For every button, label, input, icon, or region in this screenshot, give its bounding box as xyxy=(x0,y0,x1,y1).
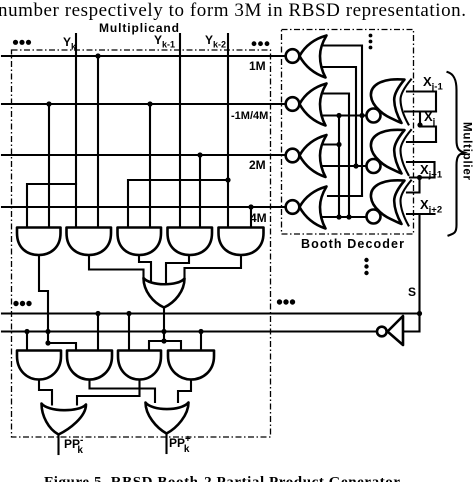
wire: A2 output into OR M1 xyxy=(89,255,144,278)
wire: Yk jog to A1 xyxy=(27,184,76,228)
node: junction rail x362 on XNOR1 output xyxy=(359,113,364,118)
wire: NOR2 top input rail xyxy=(322,94,349,218)
XNOR gate X1 second input arc xyxy=(400,80,411,125)
wire: S vertical from Xj+2 xyxy=(418,214,420,314)
XNOR gate X1 body xyxy=(371,79,405,123)
wire: 1M bus xyxy=(2,55,286,57)
XNOR gate X3 second input arc xyxy=(400,181,411,226)
wire: B4 output into O2 xyxy=(178,380,191,403)
wire: B2 output into O2 xyxy=(90,380,156,403)
wire: Xj-1 input xyxy=(407,92,436,112)
inverter U1 triangle xyxy=(388,316,404,345)
XNOR gate X1 bubble xyxy=(367,109,381,123)
node: junction 4M tap xyxy=(248,204,253,209)
wire: S-bar tap to B1 xyxy=(26,332,28,351)
node: junction A1 chain corner xyxy=(45,340,50,345)
wire: B1 output into O1 xyxy=(39,380,52,405)
svg-text:Multiplicand: Multiplicand xyxy=(99,21,179,35)
NOR gate N3 bubble xyxy=(286,149,300,163)
node: junction Yk-2 jog xyxy=(225,177,230,182)
inverter U1 bubble xyxy=(377,327,387,337)
wire: Xj+1 input xyxy=(410,176,435,178)
node: bottom-left ellipsis dots xyxy=(13,301,18,306)
wire: O2 output PPk+ xyxy=(165,434,167,454)
wire: XNOR2 lower input xyxy=(407,162,435,178)
svg-text:1M: 1M xyxy=(249,59,266,73)
wire: Yk input vertical xyxy=(75,34,77,228)
wire: XNOR3 output to NOR4 xyxy=(321,216,367,218)
node: junction M1 output tee xyxy=(161,338,166,343)
wire: A3 output into OR M1 xyxy=(139,255,151,283)
AND gate A2 xyxy=(67,228,112,256)
AND gate B1 xyxy=(17,351,61,380)
node: top-right ellipsis dots xyxy=(252,41,257,46)
node: junction -1M tap left xyxy=(46,101,51,106)
wire: NOR4 top input xyxy=(328,195,362,197)
wire: Yk-2 input vertical xyxy=(227,34,229,228)
XNOR gate X3 bubble xyxy=(367,210,381,224)
node: junction Xj+1 step xyxy=(417,175,422,180)
NOR gate N3 (2M) xyxy=(300,135,327,177)
wire: S-bar line (lower long rail) xyxy=(2,330,377,332)
AND gate A3 xyxy=(118,228,162,256)
dashed box: main partial-product generator array xyxy=(12,50,271,437)
wire: A5 output into OR M1 xyxy=(185,255,242,279)
OR gate O2 (PPk+) xyxy=(146,403,189,434)
wire: Xj+1 step down to XNOR3 xyxy=(407,178,420,193)
wire: XNOR2 output to NOR3 xyxy=(321,165,367,167)
AND gate B4 xyxy=(168,351,214,380)
node: junction rail x339 top xyxy=(336,142,341,147)
node: junction A1 chain on S-bar line xyxy=(45,329,50,334)
wire: Xj input step xyxy=(420,112,436,143)
node: junction S-bar tap B4 xyxy=(198,329,203,334)
brace: multiplier group xyxy=(448,72,465,236)
wire: A1 output chain to B1/B2 xyxy=(39,255,76,351)
wire: 2M bus xyxy=(2,154,286,156)
node: junction S on upper rail xyxy=(417,311,422,316)
AND gate B2 xyxy=(67,351,112,380)
node: junction S tap B2 xyxy=(95,311,100,316)
dashed box: Booth decoder xyxy=(282,30,414,235)
XNOR gate X3 body xyxy=(371,180,405,224)
svg-text:4M: 4M xyxy=(250,211,267,225)
OR gate M1 xyxy=(144,278,185,308)
wire: NOR1 top input rail xyxy=(323,46,362,197)
node: junction rail x349 on XNOR3 output xyxy=(346,214,351,219)
node: booth bottom vertical ellipsis xyxy=(364,258,368,262)
wire: 4M bus xyxy=(2,206,286,208)
wire: NOR1 bottom input rail xyxy=(323,67,356,166)
node: junction 2M tap xyxy=(197,152,202,157)
wire: XNOR1 lower input xyxy=(405,110,436,112)
wire: -1M tap to A1 xyxy=(48,104,50,228)
svg-text:number respectively to form 3M: number respectively to form 3M in RBSD r… xyxy=(0,0,466,21)
NOR gate N1 (1M) xyxy=(300,36,327,78)
OR gate O1 (PPk-) xyxy=(42,404,87,435)
node: top-left ellipsis dots xyxy=(13,40,18,45)
NOR gate N4 (4M) xyxy=(300,187,327,229)
wire: A4 output into OR M1 xyxy=(166,255,189,283)
wire: S tap to B3 xyxy=(128,314,130,351)
wire: S tap to B2 xyxy=(97,314,99,351)
wire: Xj+2 input / XNOR3 lower input xyxy=(407,213,435,215)
svg-text:Multiplier: Multiplier xyxy=(461,122,473,181)
node: junction 1M tap xyxy=(95,53,100,58)
node: booth top vertical ellipsis xyxy=(369,34,373,38)
wire: S-bar tap to B4 xyxy=(200,332,202,351)
wire: O1 output PPk- xyxy=(57,435,59,455)
AND gate A5 xyxy=(219,228,264,256)
wire: inverter input from S node xyxy=(403,314,420,332)
wire: Yk-1 input vertical xyxy=(179,34,181,228)
wire: -1M tap to A3 xyxy=(149,104,151,228)
node: junction S tap B3 xyxy=(126,311,131,316)
wire: XNOR2 upper input xyxy=(407,141,436,143)
wire: Yk-2 jog to A3 xyxy=(128,180,228,228)
wire: B3 output into O1 xyxy=(77,380,140,405)
AND gate B3 xyxy=(118,351,161,380)
node: junction S-bar tap B1 xyxy=(24,329,29,334)
NOR gate N4 bubble xyxy=(286,200,300,214)
NOR gate N2 bubble xyxy=(286,97,300,111)
node: junction Xj step xyxy=(417,122,422,127)
NOR gate N1 bubble xyxy=(286,49,300,63)
wire: -1M/4M bus xyxy=(2,103,286,105)
svg-text:Figure 5. RBSD Booth-2 Partial: Figure 5. RBSD Booth-2 Partial Product G… xyxy=(44,475,400,482)
wire: 1M tap to A2 xyxy=(97,56,99,228)
XNOR gate X2 body xyxy=(371,130,405,174)
node: junction -1M tap right xyxy=(147,101,152,106)
wire: OR M1 output to B3/B4 xyxy=(149,308,181,351)
AND gate A1 xyxy=(17,228,61,256)
AND gate A4 xyxy=(168,228,213,256)
node: mid-right ellipsis dots xyxy=(277,299,282,304)
wire: 4M tap to A5 xyxy=(250,207,252,228)
svg-text:Booth Decoder: Booth Decoder xyxy=(301,237,404,251)
wire: XNOR1 output to NOR2 xyxy=(321,114,367,116)
svg-text:S: S xyxy=(408,285,416,299)
NOR gate N2 (-1M/4M) xyxy=(300,84,327,126)
svg-text:2M: 2M xyxy=(249,158,266,172)
wire: S line (upper long rail) xyxy=(2,312,420,314)
node: junction rail x356 on XNOR2 output xyxy=(353,163,358,168)
wire: NOR3 top input rail xyxy=(322,116,339,218)
svg-text:-1M/4M: -1M/4M xyxy=(231,110,268,122)
node: junction rail x339 on XNOR3 output xyxy=(336,214,341,219)
XNOR gate X2 second input arc xyxy=(400,130,411,175)
XNOR gate X2 bubble xyxy=(367,159,381,173)
wire: 2M tap to A4 xyxy=(199,155,201,228)
node: junction M1 output on S-bar xyxy=(161,329,166,334)
